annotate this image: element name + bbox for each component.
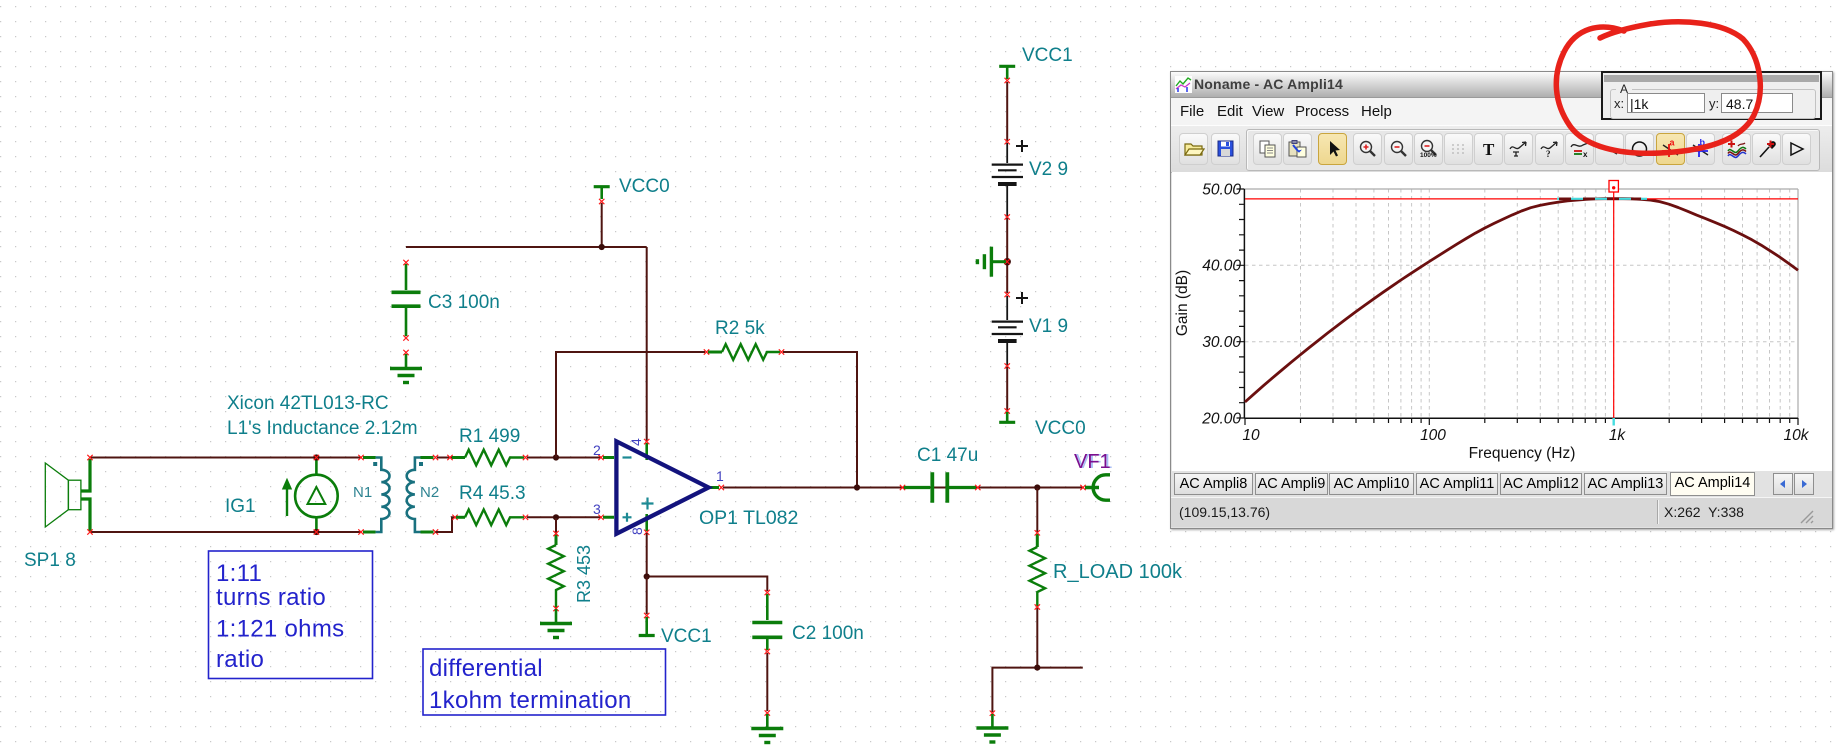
ground left of battery node	[977, 247, 1006, 277]
vcc0 bottom symbol	[999, 412, 1015, 422]
svg-text:Frequency (Hz): Frequency (Hz)	[1469, 445, 1576, 462]
svg-text:1:11: 1:11	[216, 560, 262, 587]
floating A cursor panel	[1601, 71, 1822, 120]
junction dots IG1	[313, 454, 319, 460]
svg-text:50.00: 50.00	[1202, 181, 1241, 198]
svg-text:C2 100n: C2 100n	[792, 623, 864, 644]
svg-text:N1: N1	[353, 484, 372, 501]
svg-text:turns ratio: turns ratio	[216, 584, 326, 611]
capacitor C2	[752, 594, 782, 711]
svg-text:100%: 100%	[1420, 152, 1437, 159]
vcc1 mid symbol	[639, 617, 655, 636]
battery V1	[992, 292, 1028, 365]
probe VF1	[1085, 475, 1110, 500]
svg-text:1: 1	[716, 468, 724, 484]
cursor marker	[1609, 181, 1618, 193]
svg-text:10k: 10k	[1784, 427, 1810, 444]
svg-text:Xicon 42TL013-RC: Xicon 42TL013-RC	[227, 393, 389, 414]
svg-text:20.00: 20.00	[1201, 410, 1241, 427]
svg-text:ratio: ratio	[216, 646, 264, 673]
resistor R4	[456, 510, 524, 526]
wire N2 top to R1	[437, 457, 452, 459]
svg-text:T: T	[1483, 140, 1495, 159]
svg-text:R4 45.3: R4 45.3	[459, 483, 526, 504]
wire N2 bottom step to R4	[436, 517, 456, 532]
wire vcc1 to V2	[1006, 82, 1008, 141]
svg-text:OP1 TL082: OP1 TL082	[699, 507, 798, 529]
svg-text:b: b	[1700, 139, 1706, 148]
ground below C2	[751, 714, 783, 743]
svg-text:C1 47u: C1 47u	[917, 445, 978, 466]
svg-text:N2: N2	[420, 484, 439, 501]
svg-text:R2 5k: R2 5k	[715, 318, 765, 339]
svg-text:VCC0: VCC0	[619, 176, 670, 197]
resistor R1	[452, 450, 524, 466]
annotation red circle	[1556, 22, 1760, 153]
op-amp OP1	[603, 441, 719, 534]
resistor R_LOAD	[1030, 488, 1046, 667]
svg-text:1k: 1k	[1609, 427, 1627, 444]
svg-text:differential: differential	[429, 655, 543, 682]
svg-text:Gain (dB): Gain (dB)	[1174, 270, 1191, 336]
grid v dashed	[1301, 189, 1790, 418]
annotation box 1 turns ratio	[209, 551, 373, 679]
svg-text:V2 9: V2 9	[1029, 159, 1068, 180]
svg-text:VCC1: VCC1	[1022, 45, 1073, 66]
wire opamp output	[723, 487, 1082, 489]
opamp pin labels	[593, 438, 724, 535]
resistor R3	[548, 518, 564, 608]
axes	[1244, 189, 1798, 418]
svg-text:IG1: IG1	[225, 496, 256, 517]
wire pin8 stub	[646, 577, 648, 615]
svg-text:R_LOAD 100k: R_LOAD 100k	[1053, 561, 1183, 583]
wire V1 to VCC0 bottom	[1006, 367, 1008, 410]
wire VCC0 rail	[406, 203, 647, 441]
red x speaker terminals	[87, 455, 92, 460]
svg-text:a: a	[1669, 139, 1675, 148]
axis labels	[1201, 181, 1810, 444]
capacitor C1	[904, 472, 976, 502]
svg-text:1kohm termination: 1kohm termination	[429, 687, 632, 714]
wire R4 to opamp pin3	[527, 516, 601, 518]
svg-text:10: 10	[1242, 427, 1260, 444]
curve gain	[1245, 199, 1798, 402]
svg-text:40.00: 40.00	[1202, 258, 1241, 275]
wire load to ground	[992, 668, 1082, 712]
svg-text:2: 2	[593, 442, 601, 458]
svg-text:100: 100	[1420, 427, 1446, 444]
svg-text:VCC1: VCC1	[661, 626, 712, 647]
ground below R_LOAD	[976, 714, 1008, 742]
svg-text:VCC0: VCC0	[1035, 418, 1086, 439]
svg-text:30.00: 30.00	[1202, 334, 1241, 351]
wire R1 to opamp pin2	[527, 457, 601, 459]
resistor R2	[708, 344, 780, 360]
cursor a vertical line	[1613, 192, 1615, 418]
frame top right	[1245, 189, 1798, 418]
wire top input net SP1 to N1	[90, 458, 362, 533]
wire R2 right to output node	[783, 352, 857, 488]
svg-text:V1 9: V1 9	[1029, 316, 1068, 337]
ground below C3	[390, 354, 422, 383]
svg-text:SP1 8: SP1 8	[24, 550, 76, 571]
x minor ticks	[1245, 418, 1798, 425]
speaker SP1	[45, 459, 90, 531]
capacitor C3	[392, 264, 421, 336]
battery V2	[992, 140, 1028, 216]
ground below R3	[540, 609, 572, 638]
svg-text:1:121 ohms: 1:121 ohms	[216, 616, 344, 643]
svg-text:3: 3	[593, 501, 601, 517]
grid h dashed	[1245, 265, 1798, 341]
svg-text:R1 499: R1 499	[459, 426, 520, 447]
svg-text:L1's Inductance 2.12m: L1's Inductance 2.12m	[227, 418, 418, 439]
current source IG1	[283, 459, 338, 531]
svg-text:4: 4	[628, 438, 644, 446]
svg-text:R3 453: R3 453	[574, 545, 594, 603]
battery stack VCC1 top	[999, 66, 1015, 79]
svg-text:?: ?	[1546, 149, 1551, 159]
svg-text:C3 100n: C3 100n	[428, 292, 500, 313]
annotation box 2 differential	[423, 649, 666, 715]
transformer primary N1	[363, 458, 390, 533]
svg-text:x: x	[1583, 150, 1588, 159]
cursor a horizontal line	[1245, 198, 1798, 200]
wire V2 to gnd node	[1006, 218, 1008, 293]
svg-text:VF1: VF1	[1074, 451, 1111, 473]
transformer secondary N2	[407, 458, 434, 533]
wire pin8 to VCC1 and C2	[647, 533, 768, 591]
svg-text:8: 8	[629, 527, 645, 535]
vcc0 top symbol	[594, 187, 610, 199]
cyan segment near peak	[1557, 198, 1647, 200]
y minor ticks	[1237, 189, 1245, 418]
wire inverting feedback riser	[556, 352, 705, 458]
